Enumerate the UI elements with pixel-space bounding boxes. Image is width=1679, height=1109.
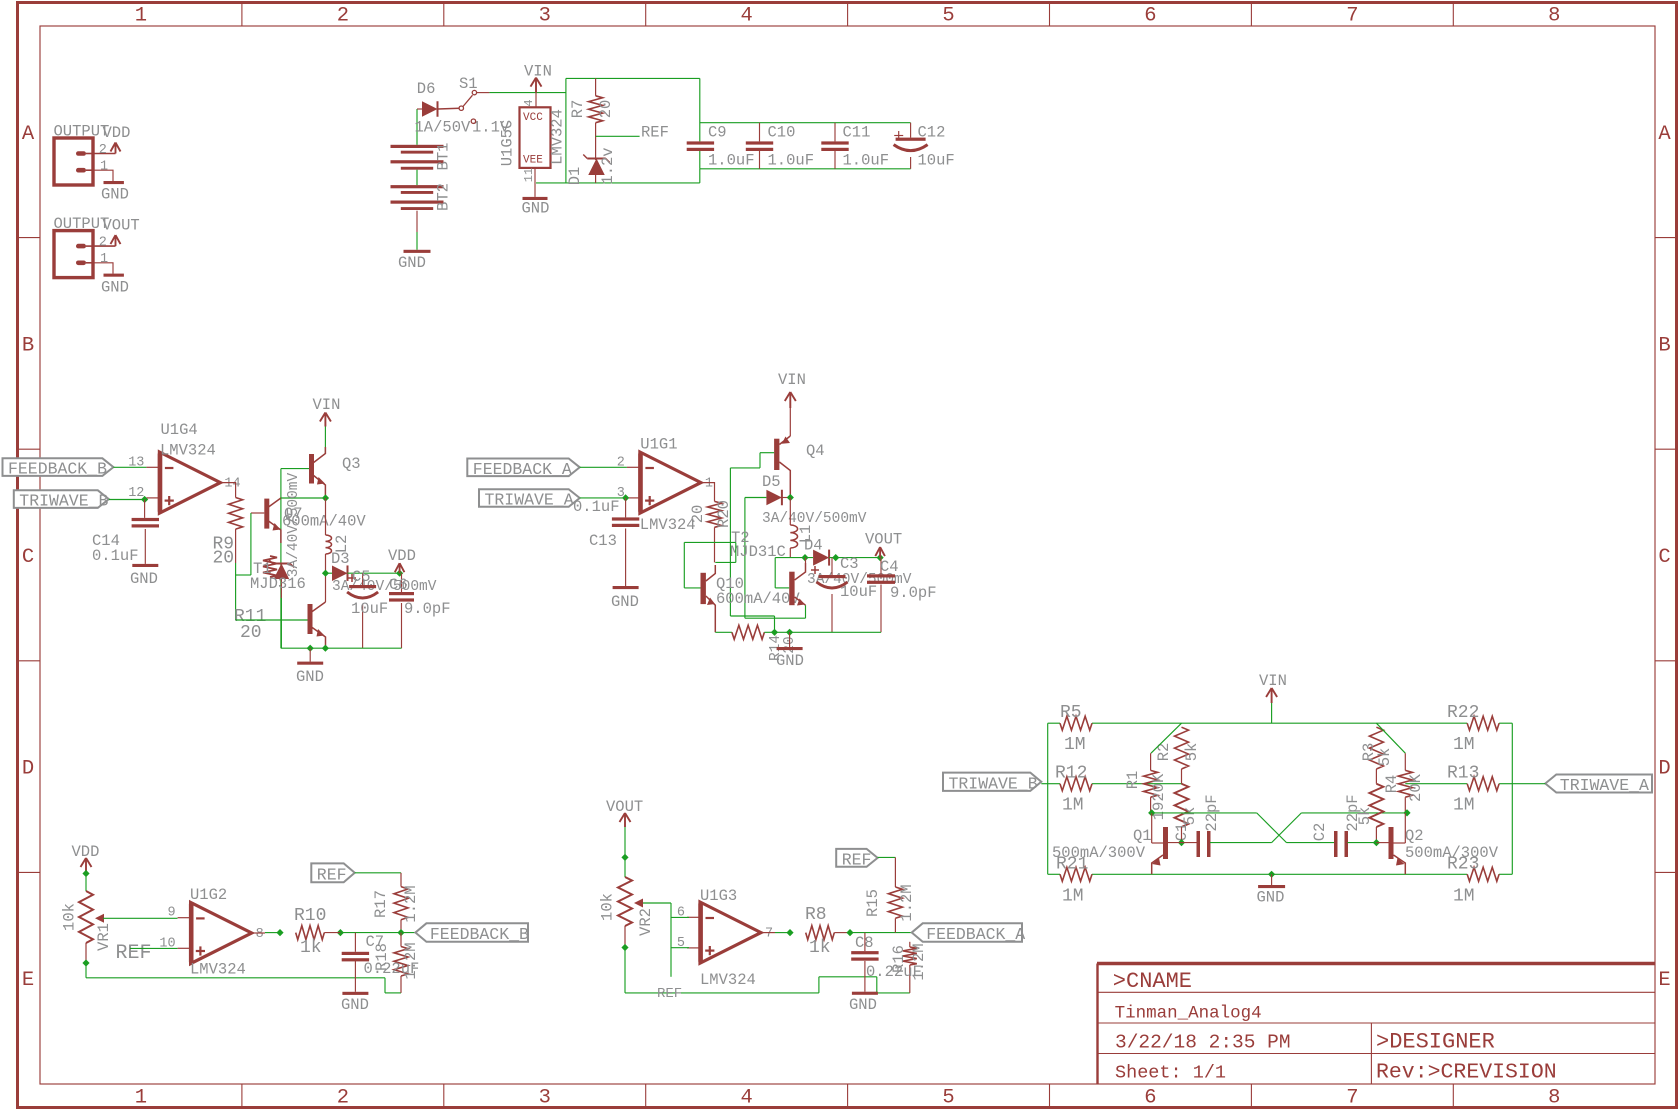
- svg-text:R12: R12: [1055, 764, 1087, 784]
- svg-text:VR1: VR1: [95, 923, 113, 951]
- svg-text:1.2M: 1.2M: [402, 885, 420, 922]
- svg-text:VOUT: VOUT: [865, 531, 902, 549]
- svg-text:3/22/18 2:35 PM: 3/22/18 2:35 PM: [1115, 1032, 1291, 1054]
- svg-text:REF: REF: [641, 124, 669, 142]
- svg-text:R5: R5: [1060, 703, 1082, 723]
- svg-text:4: 4: [740, 5, 752, 28]
- svg-text:LMV324: LMV324: [700, 971, 756, 989]
- svg-text:>CNAME: >CNAME: [1113, 969, 1192, 994]
- svg-text:D: D: [1658, 758, 1670, 781]
- svg-text:R8: R8: [805, 905, 827, 925]
- svg-text:6: 6: [677, 905, 685, 920]
- svg-text:Q1: Q1: [1133, 827, 1152, 845]
- svg-text:1A/50V: 1A/50V: [415, 119, 472, 137]
- svg-text:GND: GND: [341, 996, 369, 1014]
- svg-text:U1G2: U1G2: [190, 886, 227, 904]
- svg-text:14: 14: [224, 477, 240, 492]
- svg-text:GND: GND: [611, 593, 639, 611]
- svg-text:VR2: VR2: [637, 908, 655, 936]
- svg-text:D4: D4: [804, 537, 823, 555]
- svg-text:1M: 1M: [1064, 735, 1086, 755]
- svg-text:8: 8: [1548, 1087, 1560, 1109]
- svg-text:LMV324: LMV324: [549, 109, 567, 165]
- svg-text:FEEDBACK_B: FEEDBACK_B: [8, 460, 107, 479]
- svg-text:2: 2: [337, 1087, 349, 1109]
- svg-text:9.0pF: 9.0pF: [404, 600, 451, 618]
- svg-text:A: A: [22, 123, 35, 146]
- svg-text:S1: S1: [459, 75, 478, 93]
- svg-text:0.1uF: 0.1uF: [573, 498, 620, 516]
- svg-text:0.1uF: 0.1uF: [92, 547, 139, 565]
- svg-text:8: 8: [1548, 5, 1560, 28]
- svg-text:U1G5C: U1G5C: [499, 120, 517, 167]
- svg-text:R7: R7: [569, 100, 587, 119]
- svg-text:C8: C8: [855, 934, 874, 952]
- svg-text:6: 6: [1144, 1087, 1156, 1109]
- svg-text:FEEDBACK_A: FEEDBACK_A: [473, 460, 572, 479]
- svg-text:C6: C6: [389, 576, 408, 594]
- svg-text:TRIWAVE_A: TRIWAVE_A: [1560, 776, 1649, 795]
- svg-text:FEEDBACK_A: FEEDBACK_A: [926, 925, 1025, 944]
- svg-text:MJD31C: MJD31C: [730, 543, 786, 561]
- svg-text:10k: 10k: [599, 893, 617, 921]
- svg-text:10: 10: [159, 936, 175, 951]
- svg-text:4: 4: [740, 1087, 752, 1109]
- svg-text:U1G1: U1G1: [640, 436, 677, 454]
- svg-text:20: 20: [213, 549, 235, 569]
- svg-text:600mA/40V: 600mA/40V: [716, 590, 800, 608]
- svg-text:C12: C12: [918, 124, 946, 142]
- svg-text:5: 5: [677, 936, 685, 951]
- svg-text:C2: C2: [1311, 823, 1329, 842]
- svg-text:Q4: Q4: [806, 442, 825, 460]
- svg-text:GND: GND: [296, 668, 324, 686]
- svg-text:VEE: VEE: [523, 155, 543, 167]
- svg-text:1M: 1M: [1062, 796, 1084, 816]
- svg-text:3: 3: [539, 5, 551, 28]
- svg-text:1.2M: 1.2M: [898, 884, 916, 921]
- svg-text:1M: 1M: [1453, 735, 1475, 755]
- svg-text:>DESIGNER: >DESIGNER: [1376, 1030, 1495, 1055]
- svg-text:VDD: VDD: [388, 547, 416, 565]
- svg-text:10uF: 10uF: [918, 152, 955, 170]
- svg-text:R4: R4: [1383, 775, 1401, 794]
- svg-text:2: 2: [99, 236, 107, 251]
- svg-text:VDD: VDD: [103, 124, 131, 142]
- svg-text:Tinman_Analog4: Tinman_Analog4: [1115, 1004, 1262, 1024]
- svg-text:GND: GND: [398, 254, 426, 272]
- svg-text:R15: R15: [864, 889, 882, 917]
- svg-text:GND: GND: [1257, 889, 1285, 907]
- svg-text:1.0uF: 1.0uF: [708, 152, 755, 170]
- svg-text:500mA/300V: 500mA/300V: [1052, 844, 1146, 862]
- svg-text:1: 1: [100, 252, 108, 267]
- svg-text:1.0uF: 1.0uF: [843, 152, 890, 170]
- svg-text:VIN: VIN: [524, 63, 552, 81]
- svg-text:20: 20: [689, 505, 707, 524]
- svg-text:8: 8: [256, 927, 264, 942]
- svg-text:D3: D3: [331, 550, 350, 568]
- svg-text:3A/40V/500mV: 3A/40V/500mV: [762, 511, 867, 527]
- svg-text:Q3: Q3: [342, 455, 361, 473]
- svg-text:D: D: [22, 758, 34, 781]
- svg-text:7: 7: [1346, 1087, 1358, 1109]
- svg-text:OUTPUT: OUTPUT: [54, 123, 110, 141]
- svg-text:1M: 1M: [1062, 886, 1084, 906]
- svg-text:5k: 5k: [1181, 807, 1199, 826]
- svg-text:REF: REF: [657, 986, 682, 1002]
- svg-text:R10: R10: [294, 906, 326, 926]
- svg-text:10uF: 10uF: [351, 600, 388, 618]
- svg-text:Sheet: 1/1: Sheet: 1/1: [1115, 1063, 1226, 1084]
- svg-text:1: 1: [135, 1087, 147, 1109]
- svg-text:REF: REF: [317, 865, 347, 884]
- svg-text:1M: 1M: [1453, 796, 1475, 816]
- svg-text:5k: 5k: [1376, 748, 1394, 767]
- svg-text:B: B: [22, 334, 34, 357]
- svg-text:1M: 1M: [1453, 886, 1475, 906]
- svg-text:1: 1: [135, 5, 147, 28]
- svg-text:C3: C3: [840, 555, 859, 573]
- svg-text:5k: 5k: [1183, 743, 1201, 762]
- svg-text:C: C: [22, 546, 34, 569]
- svg-text:B: B: [1658, 334, 1670, 357]
- svg-text:2: 2: [337, 5, 349, 28]
- svg-text:1k: 1k: [300, 938, 322, 958]
- svg-text:GND: GND: [101, 186, 129, 204]
- svg-text:6: 6: [1144, 5, 1156, 28]
- svg-text:R1: R1: [1124, 771, 1142, 790]
- svg-text:VOUT: VOUT: [103, 217, 140, 235]
- svg-text:VCC: VCC: [523, 112, 543, 124]
- svg-text:E: E: [22, 969, 34, 992]
- svg-text:TRIWAVE_B: TRIWAVE_B: [949, 774, 1038, 793]
- svg-text:1.0uF: 1.0uF: [768, 152, 815, 170]
- svg-text:C5: C5: [352, 568, 371, 586]
- svg-text:D6: D6: [417, 80, 436, 98]
- svg-text:E: E: [1658, 969, 1670, 992]
- svg-text:C11: C11: [843, 124, 871, 142]
- svg-text:3: 3: [539, 1087, 551, 1109]
- svg-text:GND: GND: [130, 570, 158, 588]
- svg-text:11: 11: [522, 168, 536, 182]
- svg-text:20: 20: [597, 100, 615, 119]
- svg-text:REF: REF: [116, 942, 152, 965]
- svg-text:C7: C7: [366, 933, 385, 951]
- svg-text:C13: C13: [589, 532, 617, 550]
- svg-text:20K: 20K: [1407, 773, 1425, 802]
- svg-text:7: 7: [1346, 5, 1358, 28]
- svg-text:BT2: BT2: [435, 183, 453, 211]
- svg-text:D1: D1: [566, 167, 584, 186]
- svg-text:Q2: Q2: [1405, 827, 1424, 845]
- svg-text:REF: REF: [842, 850, 872, 869]
- svg-text:13: 13: [128, 455, 144, 470]
- svg-text:TRIWAVE_B: TRIWAVE_B: [19, 492, 108, 511]
- svg-text:10uF: 10uF: [840, 583, 877, 601]
- svg-text:4: 4: [522, 99, 536, 106]
- svg-text:GND: GND: [101, 278, 129, 296]
- svg-text:C10: C10: [768, 124, 796, 142]
- svg-text:GND: GND: [849, 996, 877, 1014]
- svg-text:R2: R2: [1155, 743, 1173, 762]
- svg-text:C: C: [1658, 546, 1670, 569]
- svg-text:R13: R13: [1447, 764, 1479, 784]
- svg-text:VIN: VIN: [313, 396, 341, 414]
- svg-text:1: 1: [705, 477, 713, 492]
- svg-text:U1G3: U1G3: [700, 887, 737, 905]
- svg-text:Rev:>CREVISION: Rev:>CREVISION: [1376, 1061, 1557, 1085]
- svg-text:GND: GND: [522, 200, 550, 218]
- svg-text:C9: C9: [708, 124, 727, 142]
- svg-text:BT1: BT1: [435, 143, 453, 171]
- svg-text:1k: 1k: [809, 938, 831, 958]
- svg-text:0.22uF: 0.22uF: [364, 960, 420, 978]
- svg-text:LMV324: LMV324: [190, 961, 246, 979]
- svg-text:D5: D5: [762, 473, 781, 491]
- svg-text:U1G4: U1G4: [161, 421, 198, 439]
- svg-text:FEEDBACK_B: FEEDBACK_B: [430, 925, 529, 944]
- svg-text:2: 2: [99, 143, 107, 158]
- svg-text:7: 7: [765, 927, 773, 942]
- svg-text:GND: GND: [776, 652, 804, 670]
- svg-text:TRIWAVE_A: TRIWAVE_A: [485, 491, 574, 510]
- svg-text:OUTPUT: OUTPUT: [54, 215, 110, 233]
- svg-text:LMV324: LMV324: [640, 516, 696, 534]
- svg-text:500mA/300V: 500mA/300V: [1405, 844, 1499, 862]
- svg-text:0.22uF: 0.22uF: [866, 963, 922, 981]
- svg-text:600mA/40V: 600mA/40V: [282, 513, 366, 531]
- svg-text:10k: 10k: [61, 903, 79, 931]
- svg-text:22pF: 22pF: [1344, 794, 1362, 831]
- svg-text:R17: R17: [372, 890, 390, 918]
- svg-text:5: 5: [942, 5, 954, 28]
- svg-text:R22: R22: [1447, 703, 1479, 723]
- svg-text:20: 20: [240, 623, 262, 643]
- svg-text:C4: C4: [880, 558, 899, 576]
- svg-text:VIN: VIN: [778, 371, 806, 389]
- svg-text:1.2v: 1.2v: [599, 147, 617, 184]
- svg-text:9.0pF: 9.0pF: [890, 584, 937, 602]
- svg-text:LMV324: LMV324: [160, 442, 216, 460]
- svg-text:A: A: [1658, 123, 1671, 146]
- svg-text:5: 5: [942, 1087, 954, 1109]
- svg-text:1: 1: [100, 160, 108, 175]
- svg-text:2: 2: [617, 455, 625, 470]
- svg-text:VIN: VIN: [1259, 672, 1287, 690]
